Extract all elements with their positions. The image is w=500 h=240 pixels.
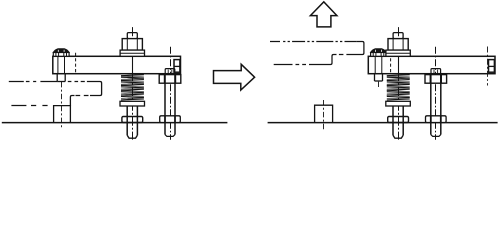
- workpiece phantom top surface (left figure): [9, 81, 57, 83]
- support P1 tip in bar: [165, 69, 175, 74]
- bolt B1 center line: [61, 82, 63, 130]
- stud S1 spring washer: [120, 101, 145, 106]
- clamp bar strap left figure: [53, 56, 181, 73]
- stud S2 compression spring: [387, 75, 410, 100]
- support P2 hex base: [426, 116, 447, 123]
- clamp bolt B1 shank in bar: [57, 56, 59, 73]
- stud S1 top hex nut: [122, 39, 142, 51]
- stud S1 center line: [132, 27, 134, 139]
- removed workpiece phantom right corner: [346, 42, 364, 55]
- support P1 hex base: [160, 116, 181, 123]
- bolt B2 center line tick: [378, 82, 380, 87]
- stud S2 chamfered tip: [393, 135, 403, 138]
- support P2 below table: [430, 123, 432, 135]
- support P2 tip in bar: [431, 69, 441, 74]
- workpiece block on table (left figure): [54, 106, 71, 123]
- clamp bolt B1 chamfered head: [53, 49, 69, 53]
- stud S2 spring washer: [386, 101, 411, 106]
- machine table surface (left figure): [2, 122, 228, 124]
- stud S2 nut cap: [393, 33, 403, 39]
- big transition arrow: [214, 64, 255, 90]
- workpiece step corner: [70, 96, 74, 106]
- locating block on table (right figure): [315, 105, 333, 122]
- workpiece visible top right corner: [87, 82, 102, 96]
- clamp bolt B2 tip: [374, 74, 376, 81]
- stud S2 washer stack on bar: [386, 50, 410, 56]
- support P2 shank: [430, 83, 432, 116]
- support screw P2 center line: [435, 47, 437, 140]
- locating block center line: [323, 100, 325, 130]
- clamp bolt B2 chamfered head: [371, 49, 387, 53]
- stud S1 bottom hex nut: [122, 117, 143, 123]
- support P2 hex head: [425, 75, 447, 84]
- stud S2 shank: [392, 106, 394, 135]
- strap end pin right: [489, 60, 495, 73]
- stud S1 shank: [126, 106, 128, 135]
- machine table surface (right figure): [268, 122, 498, 124]
- stud S2 top hex nut: [388, 39, 408, 51]
- removed workpiece phantom top: [270, 41, 357, 43]
- workpiece phantom base line: [11, 105, 47, 107]
- removed workpiece phantom bottom: [274, 64, 329, 66]
- removed workpiece phantom step dash: [339, 54, 344, 56]
- stud S1 nut cap: [127, 33, 137, 39]
- support P1 shank: [164, 83, 166, 116]
- lift-out arrow: [310, 2, 337, 27]
- support P1 below table: [164, 123, 166, 135]
- stud S1 washer stack on bar: [120, 50, 144, 56]
- stud S1 chamfered tip: [127, 135, 137, 138]
- strap end pin right center line: [487, 47, 489, 86]
- hidden slot end in strap (left): [75, 53, 77, 74]
- stud S2 bottom hex nut: [388, 117, 409, 123]
- stud S1 compression spring: [121, 75, 144, 100]
- clamp bolt B1 tip: [56, 74, 58, 82]
- support screw P1 center line: [170, 47, 172, 140]
- support P1 hex head: [159, 75, 181, 84]
- workpiece hidden edge under strap: [68, 81, 85, 83]
- strap end pin left: [174, 60, 180, 73]
- stud S2 center line: [398, 27, 400, 139]
- hidden slot end in strap (right): [390, 53, 392, 74]
- clamp bar strap right figure: [368, 56, 495, 73]
- clamp bolt B2 shank in bar: [374, 56, 376, 73]
- workpiece hidden step edge: [76, 95, 89, 97]
- removed workpiece phantom step corner: [329, 55, 337, 65]
